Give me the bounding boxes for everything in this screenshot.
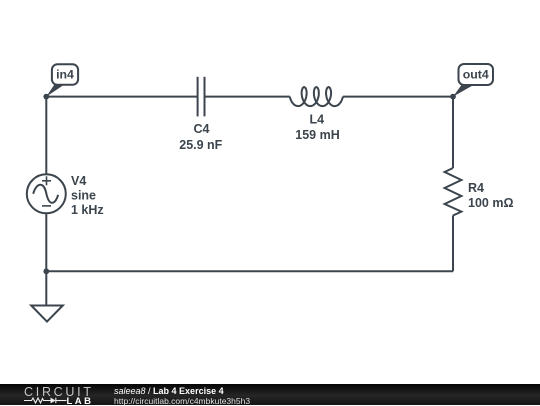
svg-text:159 mH: 159 mH xyxy=(295,128,339,142)
svg-text:sine: sine xyxy=(71,189,96,203)
resistor R4 zigzag xyxy=(445,168,462,216)
logo diode triangle xyxy=(51,398,56,404)
logo resistor-diode line xyxy=(24,398,67,403)
svg-text:100 mΩ: 100 mΩ xyxy=(468,196,513,210)
out4 label box xyxy=(459,64,494,85)
footer title line xyxy=(114,386,224,396)
svg-text:25.9 nF: 25.9 nF xyxy=(179,138,222,152)
capacitor C4 plates xyxy=(198,77,205,117)
ground stem xyxy=(45,271,47,305)
CircuitLab logo wordmark CIRCUIT xyxy=(0,384,100,405)
node dot in4 xyxy=(43,94,49,100)
wire left vertical lower (V4 bottom to bottom node) xyxy=(45,213,47,271)
V4 minus sign xyxy=(42,205,51,207)
ground triangle xyxy=(31,306,63,322)
inductor L4 coil xyxy=(290,87,343,106)
svg-text:in4: in4 xyxy=(56,68,74,82)
svg-text:V4: V4 xyxy=(71,174,86,188)
wire bottom horizontal xyxy=(46,270,453,272)
in4 label box xyxy=(52,64,78,85)
svg-text:R4: R4 xyxy=(468,181,484,195)
out4 label tail xyxy=(453,85,474,97)
svg-text:C4: C4 xyxy=(194,122,210,136)
wire inductor to out4 node xyxy=(343,96,453,98)
svg-text:L4: L4 xyxy=(310,113,325,127)
wire capacitor to inductor xyxy=(205,96,290,98)
wire right vertical upper (out4 node to R4) xyxy=(452,97,454,168)
V4 plus sign xyxy=(42,176,51,185)
svg-text:out4: out4 xyxy=(463,68,489,82)
wire right vertical lower (R4 to bottom wire) xyxy=(452,216,454,272)
footer bar xyxy=(0,384,540,405)
in4 label tail xyxy=(46,85,64,97)
svg-text:LAB: LAB xyxy=(67,396,92,405)
wire left vertical upper (in4 node to V4 top) xyxy=(45,97,47,175)
node dot out4 xyxy=(450,94,456,100)
V4 sine wave xyxy=(33,185,58,203)
wire top-left to capacitor xyxy=(46,96,197,98)
footer url line xyxy=(114,396,250,406)
svg-text:1 kHz: 1 kHz xyxy=(71,203,104,217)
node dot bottom-left xyxy=(43,268,49,274)
voltage source V4 circle xyxy=(27,174,66,213)
